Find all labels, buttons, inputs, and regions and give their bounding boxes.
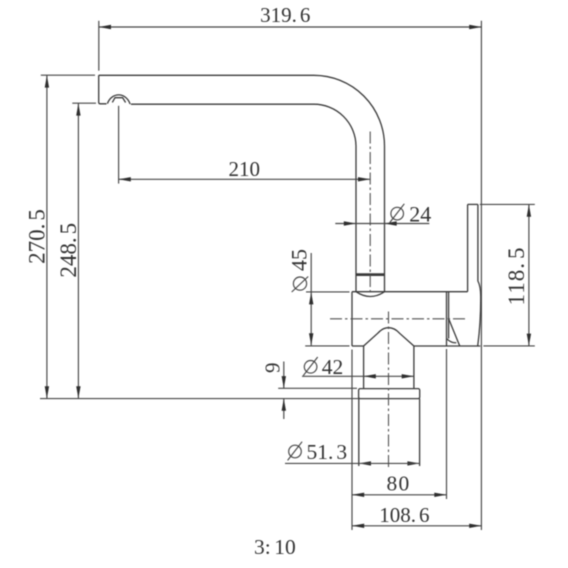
svg-text:118.5: 118.5 bbox=[504, 247, 529, 306]
dim 319.6 line bbox=[99, 26, 482, 28]
svg-text:80: 80 bbox=[387, 472, 411, 496]
wall plate left edge bbox=[467, 204, 469, 291]
shank left wall bbox=[358, 399, 360, 466]
dim 80 line bbox=[352, 494, 447, 496]
body top edge bbox=[352, 291, 468, 293]
aerator insert bbox=[112, 98, 125, 103]
dim D51.3 symbol bbox=[289, 445, 302, 458]
wall plate top edge bbox=[468, 203, 478, 205]
dim D42 arrows bbox=[364, 374, 376, 378]
svg-text:42: 42 bbox=[322, 355, 344, 379]
dim D45 line bbox=[310, 253, 312, 345]
dim D24 symbol bbox=[391, 207, 404, 220]
dim D24 line bbox=[335, 223, 429, 225]
shank right wall bbox=[419, 399, 421, 466]
dim 319.6 arrows bbox=[99, 25, 111, 29]
dim D24 arrows bbox=[344, 221, 356, 225]
dim D42 symbol bbox=[304, 361, 317, 374]
dim 9 arrows bbox=[282, 376, 286, 388]
spout left end bbox=[99, 75, 107, 104]
spout outer profile bbox=[99, 75, 385, 291]
dim 118.5 extension top bbox=[480, 203, 535, 205]
handle arc bbox=[447, 339, 457, 343]
dim 80 extension left (long) bbox=[351, 350, 353, 531]
downpipe left wall bbox=[363, 346, 365, 389]
centerline tube bbox=[369, 132, 371, 295]
body left edge bbox=[351, 292, 353, 346]
centerline downpipe bbox=[388, 312, 390, 471]
svg-text:319.6: 319.6 bbox=[260, 3, 310, 27]
dim D45 extension top bbox=[306, 291, 350, 293]
spout inner profile bbox=[131, 104, 356, 292]
body seam line 1 bbox=[446, 292, 448, 346]
dim D45 arrows bbox=[309, 292, 313, 304]
dim D51.3 line bbox=[359, 462, 420, 464]
dim 9 line lower bbox=[283, 399, 285, 419]
dim 270.5 text bbox=[24, 209, 49, 264]
tube-body fillet bbox=[356, 292, 385, 297]
aerator dome bbox=[107, 95, 130, 104]
downpipe right wall bbox=[413, 346, 415, 389]
dim 9 text bbox=[260, 363, 284, 374]
dim 9 extension top bbox=[278, 387, 357, 389]
dim 210 extension bbox=[118, 106, 120, 184]
dim D42 line bbox=[364, 375, 414, 377]
svg-text:9: 9 bbox=[260, 363, 284, 374]
dim 118.5 arrows bbox=[527, 205, 531, 217]
centerline body horizontal bbox=[330, 318, 466, 320]
dim 270.5 line bbox=[46, 75, 48, 398]
handle diagonal bbox=[449, 319, 460, 346]
dim 270.5 arrows bbox=[45, 75, 49, 87]
svg-text:270.5: 270.5 bbox=[24, 209, 49, 264]
svg-text:248.5: 248.5 bbox=[56, 223, 81, 278]
dim 248.5 text bbox=[56, 223, 81, 278]
svg-text:3:10: 3:10 bbox=[254, 535, 296, 559]
body dome arc bbox=[364, 328, 414, 346]
svg-text:210: 210 bbox=[229, 157, 261, 181]
flange bbox=[359, 389, 420, 399]
dim 210 arrows bbox=[119, 177, 131, 181]
dim D45 symbol and text bbox=[293, 277, 306, 290]
dim D42 leader bbox=[302, 375, 364, 377]
dim 108.6 line bbox=[352, 525, 481, 527]
svg-text:45: 45 bbox=[286, 249, 311, 271]
body seam line 2 bbox=[448, 292, 450, 339]
dim 9 line upper bbox=[283, 362, 285, 389]
dim 80 extension right bbox=[446, 349, 448, 499]
dim 248.5 extension top bbox=[72, 102, 96, 104]
dim 80 arrows bbox=[352, 493, 364, 497]
body bottom edge left bbox=[352, 345, 364, 347]
dim 118.5 text bbox=[504, 247, 529, 306]
dim 210 line bbox=[119, 178, 371, 180]
svg-text:51.3: 51.3 bbox=[307, 440, 348, 464]
svg-text:108.6: 108.6 bbox=[379, 503, 429, 527]
svg-text:24: 24 bbox=[409, 201, 431, 226]
baseline mounting surface bbox=[40, 398, 359, 400]
dim D51.3 arrows bbox=[359, 461, 371, 465]
dim 270.5 extension top bbox=[41, 74, 95, 76]
dim 108.6 arrows bbox=[352, 524, 364, 528]
dim D45 extension bottom bbox=[305, 345, 349, 347]
dim 248.5 arrows bbox=[76, 103, 80, 115]
wall plate right edge bbox=[478, 204, 481, 346]
dim 319.6 extension left bbox=[98, 21, 100, 71]
spout joint line bbox=[356, 273, 385, 276]
dim 118.5 extension bottom bbox=[483, 345, 534, 347]
dim 118.5 line bbox=[528, 205, 530, 346]
dim 248.5 line bbox=[77, 103, 79, 398]
dim 319.6 extension right (long) bbox=[480, 21, 482, 530]
body bottom edge right bbox=[414, 345, 480, 347]
dim D51.3 leader bbox=[285, 462, 359, 464]
